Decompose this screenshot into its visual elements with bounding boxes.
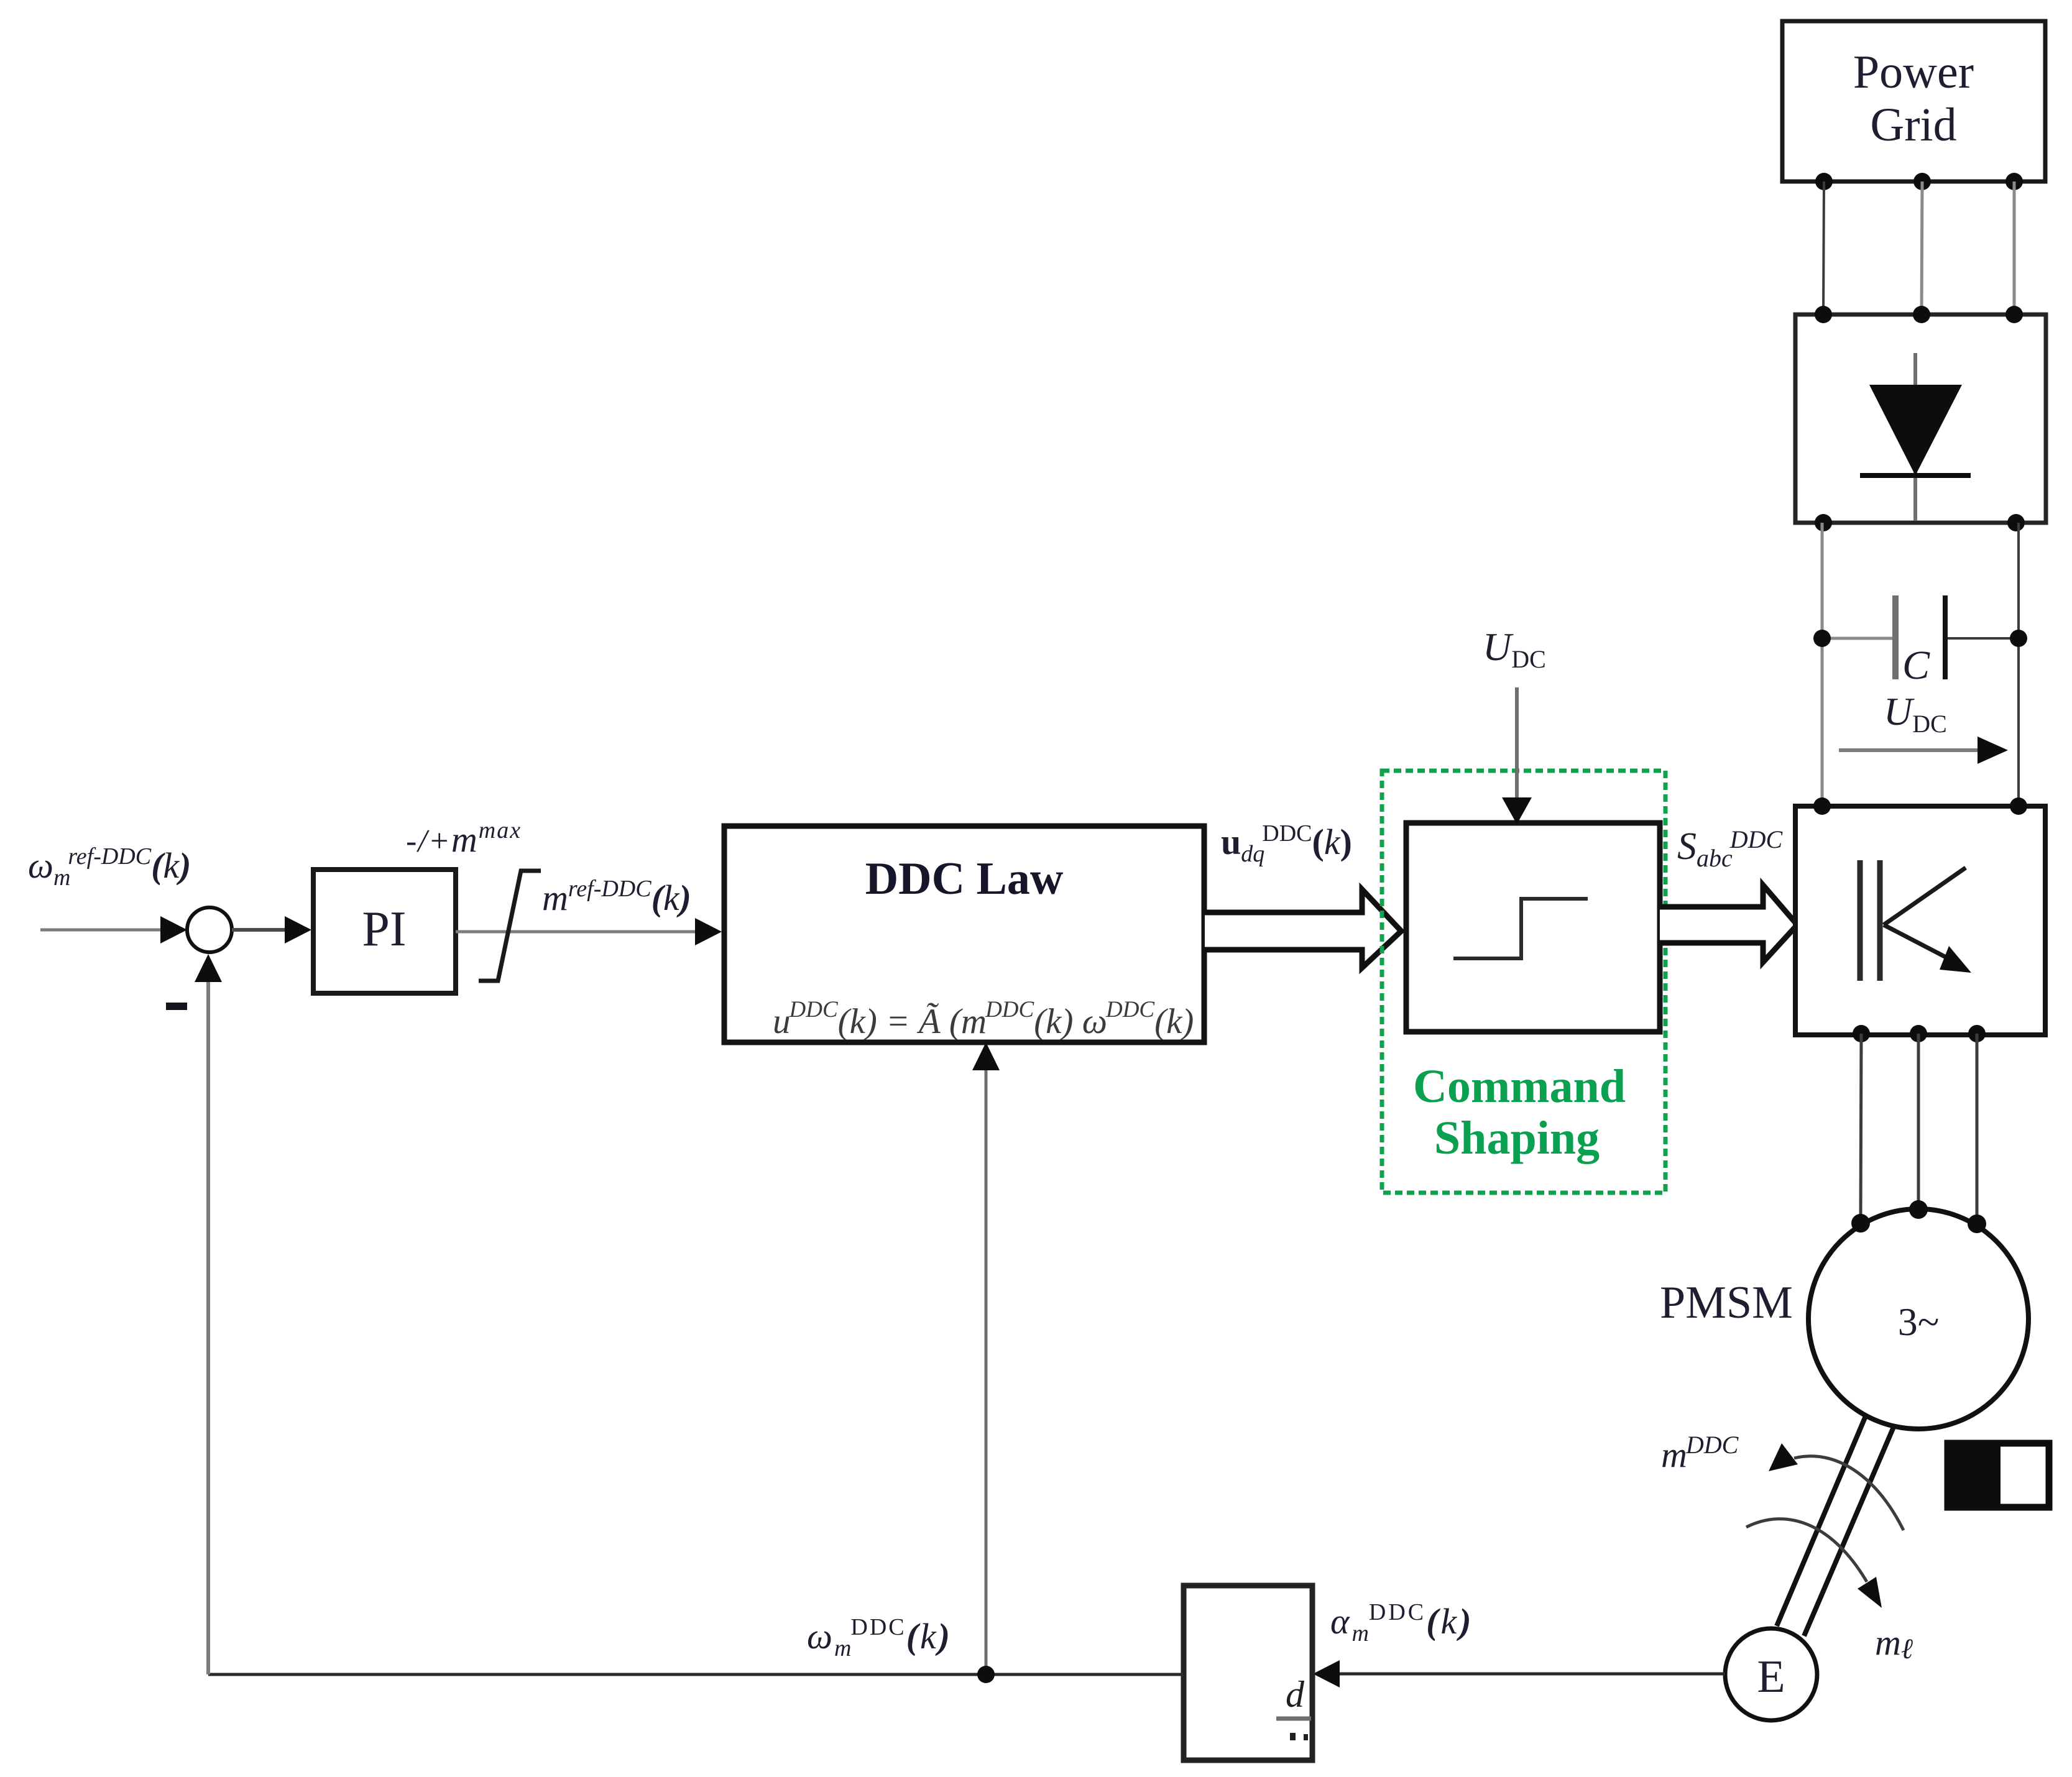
U_DC arrow: [1839, 737, 2008, 764]
svg-text:PMSM: PMSM: [1660, 1277, 1793, 1328]
wire PI to DDC Law: [456, 918, 722, 945]
svg-text:Command: Command: [1413, 1060, 1626, 1113]
d/dt differentiator box: [1184, 1586, 1312, 1760]
DDC Law block: [724, 826, 1204, 1042]
wire summing junction to PI: [232, 916, 311, 944]
node dots inverter top: [1813, 797, 2027, 815]
feedback wire d/dt to left: [208, 1673, 1184, 1676]
command shaping block: [1406, 823, 1660, 1032]
PMSM motor circle: [1808, 1209, 2028, 1429]
svg-text:PI: PI: [362, 902, 406, 957]
minus sign at summing junction: [166, 1003, 187, 1010]
node dots inverter bottom: [1853, 1025, 1986, 1042]
m^DDC rotation arc arrow: [1769, 1443, 1904, 1530]
node dots motor terminals: [1851, 1200, 1986, 1233]
block arrow command shaping to inverter: [1660, 885, 1797, 962]
label Command Shaping: [1413, 1060, 1626, 1164]
svg-text:Power: Power: [1853, 46, 1974, 98]
svg-text:3~: 3~: [1898, 1300, 1940, 1344]
m_l rotation arc arrow: [1746, 1519, 1882, 1608]
DC link wires rectifier to inverter: [1822, 523, 2019, 806]
motor shaft: [1777, 1415, 1894, 1636]
load indicator block: [1948, 1443, 2049, 1507]
wire input to summing junction: [40, 916, 187, 944]
svg-text:Grid: Grid: [1870, 99, 1956, 151]
wire encoder to d/dt block: [1313, 1660, 1725, 1687]
step symbol inside command shaping: [1453, 899, 1588, 958]
block arrow DDC Law to Command Shaping: [1205, 889, 1401, 968]
node dots power grid bottom: [1815, 173, 2023, 190]
three-phase wires inverter to PMSM: [1861, 1034, 1977, 1223]
junction node on feedback wire: [977, 1666, 995, 1683]
rectifier box: [1795, 315, 2046, 523]
node wm_ref input label: [28, 843, 191, 891]
IGBT symbol inside inverter: [1860, 860, 1971, 981]
command shaping dashed group box: [1382, 771, 1665, 1193]
summing junction: [187, 907, 232, 952]
inverter box: [1795, 806, 2045, 1035]
wire U_DC into command shaping: [1502, 687, 1532, 824]
svg-text:DDC Law: DDC Law: [865, 853, 1064, 904]
node dots rectifier bottom: [1815, 514, 2025, 531]
svg-text:C: C: [1902, 643, 1930, 688]
PI controller box: [313, 870, 456, 993]
svg-text:E: E: [1757, 1651, 1785, 1702]
capacitor C: [1822, 595, 2019, 679]
diode symbol inside rectifier: [1860, 353, 1971, 521]
saturation limiter symbol: [479, 871, 541, 981]
Power Grid box: [1782, 21, 2045, 181]
wire feedback up into DDC Law: [972, 1042, 1000, 1674]
svg-text:Shaping: Shaping: [1434, 1112, 1600, 1164]
node dots capacitor rail: [1813, 630, 2027, 647]
encoder E circle: [1725, 1628, 1817, 1720]
node dots rectifier top: [1815, 306, 2023, 323]
feedback wire up to summing junction: [195, 954, 222, 1674]
svg-text:d: d: [1286, 1674, 1305, 1715]
three-phase wires grid to rectifier: [1823, 181, 2014, 315]
